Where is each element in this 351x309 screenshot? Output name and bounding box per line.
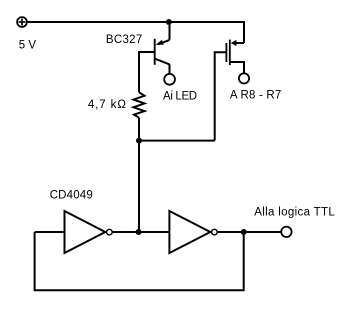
junction dot emitter node (166, 19, 172, 25)
terminal +5V (17, 17, 27, 27)
junction dot U1-U2 node (136, 229, 142, 235)
wire node down to inverters (138, 141, 140, 232)
svg-text:CD4049: CD4049 (50, 190, 93, 202)
wire base lead (139, 52, 155, 92)
wire U1 input (35, 231, 65, 233)
svg-text:4,7 kΩ: 4,7 kΩ (88, 99, 127, 111)
wire U1 output to U2 input (113, 231, 170, 233)
wire emitter lead (169, 22, 171, 40)
wire feedback loop (35, 232, 244, 290)
wire collector lead (169, 64, 171, 74)
wire resistor to node (138, 118, 140, 141)
inverter U1 (65, 211, 113, 253)
transistor Q2 mosfet (226, 40, 244, 74)
terminal Ai LED (164, 74, 175, 85)
terminal A R8 - R7 (239, 73, 249, 83)
junction dot output node (241, 229, 247, 235)
svg-text:A R8 - R7: A R8 - R7 (230, 90, 282, 102)
transistor Q1 BC327 (155, 39, 170, 65)
terminal Alla logica TTL (281, 227, 291, 237)
svg-text:BC327: BC327 (106, 34, 143, 46)
svg-text:5 V: 5 V (19, 39, 37, 51)
wire U2 output (218, 231, 281, 233)
wire top rail (28, 21, 244, 23)
resistor R1 4,7 kOhm (134, 92, 145, 117)
wire gate lead (215, 52, 227, 140)
svg-text:Ai LED: Ai LED (163, 91, 197, 103)
junction dot resistor node (136, 138, 142, 144)
svg-text:Alla logica TTL: Alla logica TTL (254, 206, 335, 218)
wire right drop to Q2 source (243, 21, 245, 43)
wire node row (139, 140, 215, 142)
inverter U2 (169, 211, 217, 253)
